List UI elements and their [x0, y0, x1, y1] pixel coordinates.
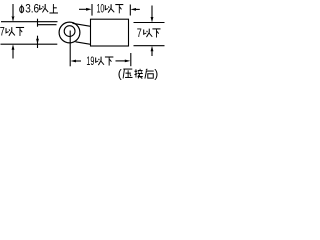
arrow down at x37.5 onto line C	[37, 36, 39, 48]
ring outer circle	[59, 22, 80, 43]
neck line top (ring to barrel)	[73, 23, 91, 26]
tick right of 19 dim at x131	[130, 53, 132, 66]
extension line from hole center down (19 dim left)	[69, 31, 71, 67]
extension line top-right	[134, 22, 165, 24]
tick at x37.5 crossing lines A and B	[37, 19, 39, 27]
svg-text:10: 10	[97, 2, 105, 16]
svg-text:3.6: 3.6	[25, 1, 39, 15]
label phi3.6 (hole dia)	[20, 5, 24, 14]
arrow right onto x131 (19 dim)	[116, 60, 126, 62]
arrow left onto x70 (19 dim)	[76, 60, 81, 62]
extension line A top-left (ring top tangent)	[1, 21, 58, 23]
svg-text:7: 7	[137, 26, 142, 40]
arrow down at x13 (left 7 dim, upper)	[12, 4, 14, 16]
ring hole inner circle	[64, 26, 75, 37]
arrow right onto x91.5 (10 dim left)	[79, 8, 87, 10]
tick left of 10 dim at x91.5	[91, 4, 93, 16]
arrow down at x152 (right 7 dim, upper)	[151, 6, 153, 18]
background	[0, 0, 165, 80]
arrow up at x152 (right 7 dim, lower)	[151, 51, 153, 56]
barrel rectangle	[91, 19, 129, 46]
svg-text:19: 19	[86, 54, 94, 68]
svg-text:(: (	[118, 66, 122, 80]
arrow up at x13 (left 7 dim, lower)	[12, 50, 14, 59]
extension line B (second, short)	[38, 24, 57, 26]
extension line C bottom-left (ring bottom tangent)	[1, 43, 58, 45]
tick right of 10 dim at x130	[129, 5, 131, 16]
svg-text:7: 7	[0, 25, 5, 39]
neck line bottom (ring to barrel)	[76, 42, 91, 45]
extension line bottom-right	[134, 45, 165, 47]
svg-text:): )	[154, 66, 158, 80]
arrow left onto x130 (10 dim right)	[136, 8, 140, 10]
label 以上 of phi3.6以上	[40, 4, 48, 13]
